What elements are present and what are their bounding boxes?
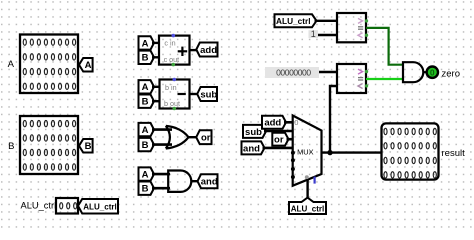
tunnel A (subtractor input) [139, 80, 155, 93]
wire subtractor output [190, 93, 198, 95]
or gate U3 [166, 126, 189, 149]
wire adder input A [152, 42, 159, 44]
svg-text:or: or [201, 133, 211, 144]
tunnel or (or gate output) [196, 130, 211, 144]
wire or input A [152, 128, 172, 131]
comparator U5 [337, 13, 368, 42]
tunnel ALU_ctrl (mux select) [289, 198, 326, 214]
and gate U7 (zero detect) [403, 62, 423, 82]
svg-text:sub: sub [200, 89, 217, 100]
wire comparator U6 equal output (logic 1, bright green) [366, 78, 403, 80]
tunnel ALU_ctrl (bottom left) [78, 199, 118, 214]
wire and input A [152, 173, 170, 176]
wire constant to comparator U6 [319, 71, 337, 73]
svg-text:A: A [142, 170, 149, 181]
tunnel B (or gate input) [139, 138, 155, 151]
wire subtractor input A [152, 86, 160, 88]
svg-text:ALU_ctrl: ALU_ctrl [291, 203, 325, 213]
label A [8, 59, 15, 70]
svg-text:ALU_ctrl: ALU_ctrl [83, 201, 117, 211]
wire comparator U5 equal output (logic 0, dark green) [366, 28, 403, 65]
svg-text:and: and [243, 143, 260, 154]
svg-text:MUX: MUX [297, 147, 313, 156]
tunnel and (and gate output) [198, 174, 218, 188]
wire mux output to result [322, 151, 382, 153]
wire ALU_ctrl to comparator [315, 20, 338, 22]
constant 00000000 [265, 67, 319, 78]
wire or input B [152, 143, 172, 146]
svg-text:0: 0 [294, 118, 298, 127]
tunnel sub (mux input) [243, 125, 266, 138]
svg-text:B: B [142, 53, 149, 64]
svg-text:A: A [142, 125, 149, 136]
label B [8, 141, 14, 152]
tunnel A (adder input) [139, 36, 155, 49]
wire constant 1 to comparator [318, 34, 337, 36]
svg-text:b in: b in [165, 83, 177, 92]
svg-text:A: A [85, 60, 92, 71]
svg-text:zero: zero [442, 69, 460, 80]
svg-text:00000000: 00000000 [276, 67, 311, 77]
wire and output [191, 180, 198, 182]
output pin result (32-bit value display) [382, 123, 439, 179]
svg-text:or: or [274, 135, 284, 146]
wire mux select [306, 179, 308, 198]
svg-text:result: result [442, 148, 466, 159]
tunnel B (adder input) [139, 51, 155, 64]
subtractor U2 [160, 78, 190, 111]
wire adder output [190, 49, 197, 51]
svg-text:sub: sub [245, 127, 262, 138]
wire or output [188, 136, 197, 138]
and gate U4 [168, 171, 191, 192]
input pin ALU_ctrl (3-bit) [56, 198, 78, 214]
svg-text:B: B [85, 141, 92, 152]
constant 1 [309, 29, 319, 39]
wire adder input B [152, 56, 159, 58]
svg-text:A: A [142, 38, 149, 49]
input pin A (32-bit value display) [20, 35, 78, 94]
svg-text:ALU_ctrl: ALU_ctrl [21, 201, 57, 211]
tunnel A (or gate input) [139, 123, 155, 136]
wire and input B [152, 187, 170, 190]
svg-text:b out: b out [164, 99, 180, 108]
wire mux input 0 (add) [284, 121, 293, 124]
wire branch to comparator [330, 86, 337, 153]
svg-text:A: A [8, 59, 15, 70]
tunnel B (subtractor input) [139, 95, 155, 108]
svg-text:add: add [200, 45, 217, 56]
wire subtractor input B [152, 100, 160, 102]
comparator U6 [337, 64, 368, 93]
label result [442, 148, 466, 159]
svg-text:add: add [264, 118, 281, 129]
tunnel sub (subtractor output) [197, 87, 217, 101]
tunnel ALU_ctrl (top, comparator input) [275, 14, 317, 27]
wire mux input 2 (or) [287, 138, 293, 141]
svg-text:B: B [142, 184, 149, 195]
tunnel A (at pin A) [79, 58, 93, 72]
tunnel add (mux input) [262, 116, 286, 129]
svg-text:c in: c in [164, 38, 175, 47]
svg-text:B: B [142, 140, 149, 151]
tunnel B (and gate input) [139, 182, 155, 195]
tunnel and (mux input) [242, 141, 265, 154]
svg-text:1: 1 [311, 29, 316, 39]
wire mux input 1 (sub) [264, 130, 293, 133]
tunnel B (at pin B) [79, 139, 93, 153]
svg-text:0: 0 [430, 67, 435, 77]
svg-text:B: B [142, 97, 149, 108]
svg-text:and: and [201, 177, 218, 188]
tunnel A (and gate input) [139, 167, 155, 180]
tunnel add (adder output) [196, 43, 217, 57]
label zero [442, 69, 460, 80]
junction node [327, 150, 332, 155]
svg-text:ALU_ctrl: ALU_ctrl [276, 16, 311, 26]
tunnel or (mux input) [272, 133, 288, 146]
output pin zero (LED showing 0) [427, 67, 438, 78]
input pin B (32-bit value display) [20, 116, 78, 174]
wire mux input 3 (and) [263, 147, 293, 150]
svg-text:c out: c out [164, 55, 180, 64]
wire and output to zero pin [423, 71, 427, 73]
svg-text:A: A [142, 82, 149, 93]
adder U1 [159, 34, 190, 67]
label ALU_ctrl [21, 201, 57, 211]
multiplexer MUX1 [291, 116, 322, 186]
svg-text:B: B [8, 141, 14, 152]
